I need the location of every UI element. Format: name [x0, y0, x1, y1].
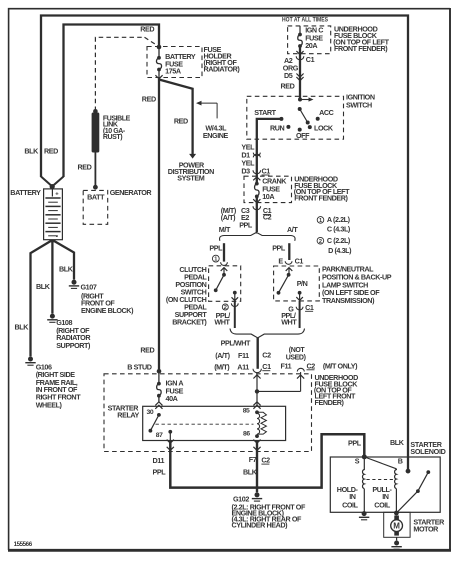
svg-text:PPL/WHT: PPL/WHT	[221, 338, 251, 347]
svg-text:SWITCH: SWITCH	[346, 101, 372, 110]
svg-text:40A: 40A	[166, 394, 178, 403]
svg-text:CYLINDER HEAD): CYLINDER HEAD)	[232, 521, 289, 530]
svg-text:(M/T ONLY): (M/T ONLY)	[323, 361, 358, 370]
svg-text:BLK: BLK	[59, 264, 74, 273]
svg-text:PPL: PPL	[239, 220, 253, 229]
svg-text:OFF: OFF	[296, 131, 310, 140]
svg-text:-: -	[56, 233, 58, 240]
svg-text:20A: 20A	[305, 41, 317, 50]
svg-text:2: 2	[319, 239, 322, 245]
svg-text:WHT: WHT	[214, 317, 230, 326]
svg-text:RELAY: RELAY	[117, 411, 139, 420]
svg-text:G107: G107	[81, 283, 97, 292]
svg-text:RED: RED	[78, 162, 92, 171]
svg-text:ENGINE: ENGINE	[203, 131, 229, 140]
svg-text:START: START	[254, 108, 276, 117]
svg-text:B STUD: B STUD	[127, 363, 151, 372]
svg-text:PPL: PPL	[153, 467, 167, 476]
svg-text:RED: RED	[140, 346, 154, 355]
svg-text:C (4.3L): C (4.3L)	[327, 225, 351, 234]
svg-text:10A: 10A	[262, 192, 274, 201]
svg-text:A (2.2L): A (2.2L)	[327, 215, 351, 224]
svg-text:P/N: P/N	[297, 279, 308, 288]
svg-text:M: M	[393, 522, 400, 531]
svg-text:(A/T): (A/T)	[215, 351, 230, 360]
svg-text:C2: C2	[307, 361, 316, 370]
svg-text:(A/T): (A/T)	[221, 213, 236, 222]
svg-text:PPL: PPL	[209, 243, 223, 252]
svg-text:C2: C2	[263, 213, 272, 222]
svg-text:LOCK: LOCK	[314, 123, 334, 132]
svg-text:COIL: COIL	[342, 501, 359, 510]
svg-text:RED: RED	[142, 94, 156, 103]
svg-text:D11: D11	[153, 456, 165, 465]
svg-text:C1: C1	[262, 362, 271, 371]
svg-text:PPL: PPL	[348, 438, 362, 447]
svg-text:155566: 155566	[14, 541, 33, 548]
svg-text:BLK: BLK	[24, 147, 39, 156]
svg-text:D5: D5	[284, 71, 293, 80]
svg-text:WHT: WHT	[281, 317, 297, 326]
svg-text:WHEEL): WHEEL)	[36, 400, 63, 409]
svg-text:RED: RED	[44, 147, 58, 156]
svg-text:SYSTEM: SYSTEM	[177, 174, 204, 183]
svg-text:BATTERY: BATTERY	[10, 188, 41, 197]
svg-text:C2: C2	[262, 351, 271, 360]
svg-text:F7: F7	[249, 455, 257, 464]
svg-text:M/T: M/T	[219, 225, 231, 234]
svg-text:F11: F11	[281, 361, 292, 370]
svg-text:RED: RED	[140, 24, 154, 33]
svg-text:C1: C1	[306, 55, 315, 64]
svg-text:C1: C1	[262, 167, 271, 176]
svg-text:ACC: ACC	[319, 108, 334, 117]
svg-text:(M/T): (M/T)	[214, 362, 230, 371]
svg-text:BLK: BLK	[36, 282, 51, 291]
svg-text:RADIATOR): RADIATOR)	[204, 64, 241, 73]
svg-text:D (4.3L): D (4.3L)	[328, 246, 352, 255]
svg-text:85: 85	[243, 408, 250, 415]
svg-text:RED: RED	[174, 116, 188, 125]
svg-text:COIL: COIL	[374, 501, 391, 510]
svg-text:PPL: PPL	[272, 243, 286, 252]
svg-text:FRONT FENDER): FRONT FENDER)	[294, 194, 348, 203]
svg-text:BATT: BATT	[87, 193, 105, 202]
svg-text:C1: C1	[295, 256, 304, 265]
svg-text:A/T: A/T	[287, 225, 298, 234]
svg-text:HOT AT ALL TIMES: HOT AT ALL TIMES	[282, 16, 328, 23]
svg-text:BLK: BLK	[243, 467, 258, 476]
svg-text:C (2.2L): C (2.2L)	[327, 236, 351, 245]
svg-text:A11: A11	[237, 362, 249, 371]
svg-text:RUN: RUN	[270, 123, 285, 132]
svg-text:C2: C2	[261, 456, 270, 465]
svg-text:SUPPORT): SUPPORT)	[56, 341, 91, 350]
svg-text:D3: D3	[241, 167, 250, 176]
svg-text:FENDER): FENDER)	[315, 398, 345, 407]
svg-text:SOLENOID: SOLENOID	[410, 447, 445, 456]
svg-text:F11: F11	[238, 351, 249, 360]
svg-text:E: E	[278, 256, 283, 265]
svg-text:TRANSMISSION): TRANSMISSION)	[322, 296, 375, 305]
svg-text:C1: C1	[305, 303, 314, 312]
svg-text:USED): USED)	[286, 354, 306, 361]
svg-text:30: 30	[147, 409, 154, 416]
svg-text:BRACKET): BRACKET)	[172, 318, 207, 327]
svg-text:RED: RED	[281, 81, 295, 90]
svg-text:ENGINE BLOCK): ENGINE BLOCK)	[81, 306, 134, 315]
svg-text:BLK: BLK	[390, 438, 405, 447]
svg-text:GENERATOR: GENERATOR	[110, 188, 153, 197]
svg-text:FRONT FENDER): FRONT FENDER)	[334, 44, 388, 53]
svg-text:RUST): RUST)	[103, 134, 122, 141]
svg-text:B: B	[398, 457, 403, 466]
svg-text:(NOT: (NOT	[289, 347, 306, 354]
svg-text:1: 1	[214, 257, 217, 263]
svg-text:86: 86	[243, 431, 250, 438]
svg-text:87: 87	[156, 432, 163, 439]
svg-text:175A: 175A	[165, 67, 181, 76]
svg-text:S: S	[355, 457, 360, 466]
svg-text:MOTOR: MOTOR	[413, 525, 439, 534]
svg-text:1: 1	[319, 218, 322, 224]
svg-text:BLK: BLK	[15, 322, 30, 331]
